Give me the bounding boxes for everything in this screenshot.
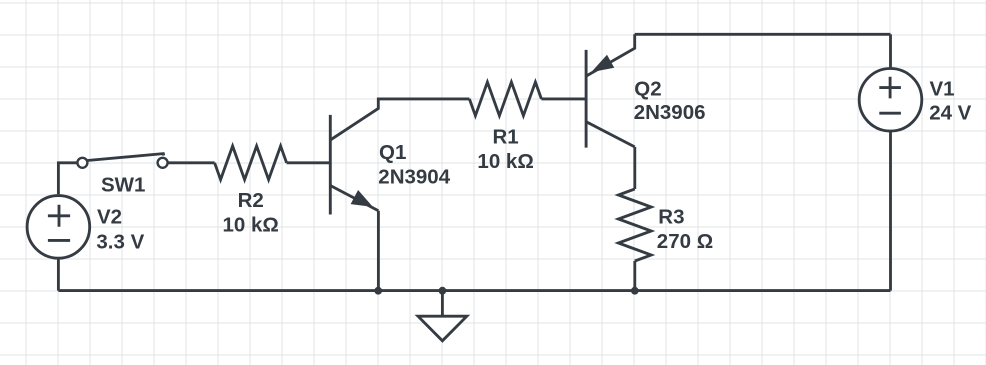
wire: top rail from Q2 emitter to V1 xyxy=(635,33,891,36)
transistor Q1 base bar xyxy=(329,115,332,215)
svg-text:2N3904: 2N3904 xyxy=(378,165,450,188)
node: junction dot ground connection xyxy=(439,287,447,295)
svg-text:R3: R3 xyxy=(658,205,684,228)
wire: V1 top stub xyxy=(889,34,892,67)
wire: R3 down to ground rail xyxy=(633,261,636,291)
node: junction dot R3 on ground rail xyxy=(631,287,639,295)
voltage source V2 plus sign xyxy=(48,205,70,227)
ground symbol triangle xyxy=(418,316,467,341)
switch SW1 right contact circle xyxy=(158,158,168,168)
wire: R1 to Q2 base xyxy=(541,97,586,100)
wire: Q2 collector down to R3 xyxy=(633,147,636,189)
transistor Q1 emitter arrow xyxy=(351,191,371,206)
wire: R2 to Q1 base xyxy=(287,161,331,164)
switch SW1 left contact circle xyxy=(77,158,87,168)
ground stub wire xyxy=(441,291,444,316)
transistor Q2 base bar xyxy=(585,50,588,148)
transistor Q1 collector diagonal and wire to R1 xyxy=(330,99,469,140)
svg-text:10 kΩ: 10 kΩ xyxy=(477,150,533,173)
svg-text:2N3906: 2N3906 xyxy=(634,101,706,124)
svg-text:270 Ω: 270 Ω xyxy=(657,230,713,253)
voltage source V1 circle xyxy=(859,69,922,132)
svg-text:Q1: Q1 xyxy=(379,141,406,164)
resistor R3 zigzag xyxy=(618,189,651,261)
wire: bottom ground rail xyxy=(58,289,890,292)
wire: V2 bottom stub xyxy=(57,259,60,291)
node: junction dot Q1 emitter on ground rail xyxy=(374,287,382,295)
wire: V1 bottom stub down to ground rail xyxy=(889,132,892,291)
svg-text:24 V: 24 V xyxy=(929,102,971,125)
voltage source V1 minus sign xyxy=(879,112,901,115)
wire: Q1 emitter down to ground rail xyxy=(377,211,380,291)
svg-text:Q2: Q2 xyxy=(634,77,661,100)
transistor Q1 emitter diagonal xyxy=(330,186,378,211)
svg-text:R2: R2 xyxy=(238,189,264,212)
svg-text:V1: V1 xyxy=(930,77,955,100)
svg-text:V2: V2 xyxy=(97,206,122,229)
transistor Q2 emitter arrow xyxy=(593,56,614,72)
resistor R1 zigzag xyxy=(469,82,541,116)
voltage source V2 minus sign xyxy=(48,239,70,242)
svg-text:R1: R1 xyxy=(492,125,518,148)
svg-text:SW1: SW1 xyxy=(101,173,145,196)
voltage source V1 plus sign xyxy=(879,77,901,99)
wire: V2 top riser to switch xyxy=(58,163,77,195)
resistor R2 zigzag xyxy=(215,146,287,180)
transistor Q2 emitter diagonal and stub to top rail xyxy=(586,34,635,76)
svg-text:3.3 V: 3.3 V xyxy=(96,230,144,253)
switch SW1 lever xyxy=(87,154,163,161)
voltage source V2 circle xyxy=(27,196,90,259)
transistor Q2 collector diagonal xyxy=(586,122,635,147)
wire: switch right contact to R2 xyxy=(168,161,215,164)
svg-text:10 kΩ: 10 kΩ xyxy=(223,213,279,236)
